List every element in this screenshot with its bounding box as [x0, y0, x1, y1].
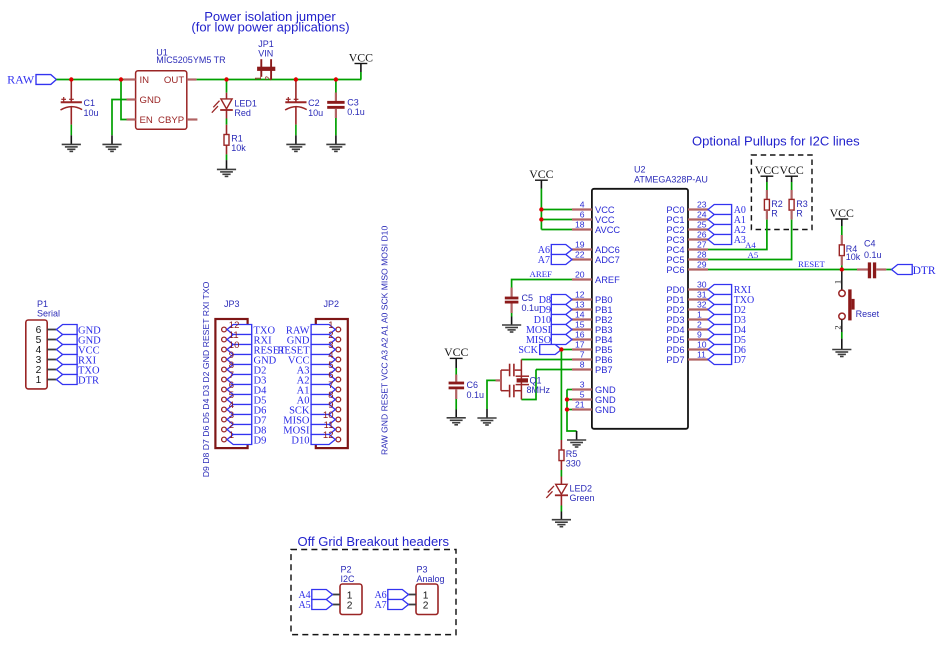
svg-text:RAW GND RESET VCC A3 A2 A1 A0: RAW GND RESET VCC A3 A2 A1 A0 SCK MISO M…	[379, 226, 389, 455]
svg-text:30: 30	[697, 280, 707, 290]
net flag A5 (P2 pin 2)	[312, 600, 333, 610]
svg-text:VCC: VCC	[444, 345, 468, 359]
switch S1 reset button	[841, 272, 843, 291]
resistor R2	[766, 176, 768, 182]
net flag SCK	[540, 345, 562, 355]
capacitor C4	[857, 268, 868, 270]
net flag RAW	[36, 75, 56, 85]
svg-text:1: 1	[36, 375, 42, 386]
svg-text:ATMEGA328P-AU: ATMEGA328P-AU	[634, 174, 708, 184]
U2 pin 29 (PC6) stub	[688, 268, 708, 270]
svg-text:PB3: PB3	[595, 325, 613, 335]
net flag D2 (JP3 pin 8)	[227, 365, 252, 375]
svg-text:PB1: PB1	[595, 305, 613, 315]
svg-text:PC6: PC6	[666, 265, 684, 275]
resistor R1	[226, 125, 228, 135]
JP3 pin 8 circle	[222, 367, 227, 372]
svg-text:PD2: PD2	[666, 305, 684, 315]
U1 pin GND stub	[127, 98, 136, 100]
svg-text:PD7: PD7	[666, 355, 684, 365]
svg-text:PC5: PC5	[666, 255, 684, 265]
net flag D9	[551, 305, 572, 315]
svg-text:AREF: AREF	[530, 269, 553, 279]
U2 pin 15 (PB3) stub	[572, 328, 592, 330]
net flag D8	[551, 295, 572, 305]
junction GND pin5	[565, 397, 569, 401]
svg-text:10u: 10u	[84, 108, 99, 118]
svg-text:CBYP: CBYP	[158, 115, 184, 126]
wire LED2 to ground	[560, 495, 562, 505]
svg-text:22: 22	[575, 250, 585, 260]
svg-text:SCK: SCK	[518, 345, 538, 356]
capacitor C1 ground	[62, 144, 81, 151]
svg-text:1: 1	[229, 430, 234, 441]
svg-text:VIN: VIN	[258, 48, 273, 58]
svg-text:C2: C2	[308, 98, 320, 108]
net flag VCC (JP2 pin 4)	[311, 355, 335, 365]
LED2 ground	[552, 520, 571, 527]
svg-text:PD0: PD0	[666, 285, 684, 295]
svg-text:U2: U2	[634, 164, 646, 174]
U2 pin 8 (PB7) stub	[572, 368, 592, 370]
svg-text:0.1u: 0.1u	[467, 390, 485, 400]
net flag D4 (JP3 pin 6)	[227, 385, 252, 395]
wire VCC drop	[360, 64, 362, 73]
net flag D6	[708, 345, 732, 355]
svg-text:GND: GND	[595, 405, 616, 415]
net flag A6 (P3 pin 1)	[388, 590, 409, 600]
svg-text:21: 21	[575, 400, 585, 410]
U2 ground	[567, 440, 586, 447]
resonator Q1 8MHz	[520, 360, 522, 400]
svg-text:A5: A5	[298, 600, 310, 611]
U2 pin 11 (PD7) stub	[688, 358, 708, 360]
svg-text:1: 1	[832, 280, 842, 284]
wire SCK junction to pin 17	[561, 349, 572, 351]
svg-text:6: 6	[580, 210, 585, 220]
svg-text:19: 19	[575, 240, 585, 250]
svg-text:29: 29	[697, 260, 707, 270]
JP2 pin 6 circle	[336, 377, 341, 382]
svg-text:OUT: OUT	[164, 75, 184, 86]
svg-text:17: 17	[575, 340, 585, 350]
C3 ground	[326, 144, 345, 151]
P1 pin 4 stub	[47, 349, 56, 351]
JP3 pin 5 circle	[222, 397, 227, 402]
svg-text:VCC: VCC	[595, 205, 615, 215]
svg-text:Reset: Reset	[856, 309, 880, 319]
svg-text:JP3: JP3	[224, 299, 240, 309]
svg-text:2: 2	[263, 76, 273, 81]
svg-text:R2: R2	[771, 199, 783, 209]
net flag D5 (JP3 pin 5)	[227, 395, 252, 405]
svg-text:EN: EN	[140, 115, 153, 126]
svg-text:10k: 10k	[231, 143, 246, 153]
net flag A3 (JP2 pin 5)	[311, 365, 335, 375]
svg-text:25: 25	[697, 220, 707, 230]
net flag D7 (JP3 pin 3)	[227, 415, 252, 425]
U2 pin 5 (GND) stub	[572, 398, 592, 400]
svg-text:PC3: PC3	[666, 235, 684, 245]
svg-text:ADC6: ADC6	[595, 245, 620, 255]
svg-text:24: 24	[697, 210, 707, 220]
net flag A0	[708, 205, 732, 215]
net flag A7 (P3 pin 2)	[388, 600, 409, 610]
svg-text:PB5: PB5	[595, 345, 613, 355]
junction VCC pin4	[539, 207, 543, 211]
U2 pin 28 (PC5) stub	[688, 258, 708, 260]
resistor R5	[560, 440, 562, 450]
P1 pin 3 stub	[47, 359, 56, 361]
svg-text:2: 2	[697, 320, 702, 330]
jumper JP1	[260, 59, 262, 77]
junction GND pin21	[565, 407, 569, 411]
net flag DTR	[892, 265, 913, 275]
net flag D5	[708, 335, 732, 345]
U2 pin 31 (PD1) stub	[688, 298, 708, 300]
svg-text:1: 1	[253, 76, 263, 81]
JP3 pin 12 circle	[222, 327, 227, 332]
U2 pin 32 (PD2) stub	[688, 308, 708, 310]
wire PB6 to resonator	[521, 359, 572, 361]
svg-text:P1: P1	[37, 299, 48, 309]
net flag A7 (ADC7)	[551, 255, 572, 265]
dashed box breakout	[291, 550, 456, 635]
svg-text:PD1: PD1	[666, 295, 684, 305]
JP3 pin 6 circle	[222, 387, 227, 392]
JP3 pin 10 circle	[222, 347, 227, 352]
wire RESET net	[708, 269, 857, 271]
JP3 pin 3 circle	[222, 417, 227, 422]
svg-text:D10: D10	[291, 435, 309, 446]
net flag A2 (JP2 pin 6)	[311, 375, 335, 385]
net flag SCK (JP2 pin 9)	[311, 405, 335, 415]
net flag A2	[708, 225, 732, 235]
svg-text:27: 27	[697, 240, 707, 250]
U2 pin 6 (VCC) stub	[572, 218, 592, 220]
op-amp U1 MIC5205 regulator box	[136, 71, 187, 130]
net flag RAW (JP2 pin 1)	[311, 325, 335, 335]
U2 pin 26 (PC3) stub	[688, 238, 708, 240]
svg-text:7: 7	[580, 350, 585, 360]
U2 pin 22 (ADC7) stub	[572, 258, 592, 260]
U2 pin 16 (PB4) stub	[572, 338, 592, 340]
net flag RXI (P1 pin 3)	[56, 355, 77, 365]
dashed box pullups	[751, 155, 812, 230]
svg-text:Q1: Q1	[530, 375, 542, 385]
svg-text:PC4: PC4	[666, 245, 684, 255]
U1 ground	[102, 144, 121, 151]
junction RAW/EN	[119, 77, 123, 81]
U2 pin 13 (PB1) stub	[572, 308, 592, 310]
U2 pin 18 (AVCC) stub	[572, 228, 592, 230]
svg-text:0.1u: 0.1u	[522, 303, 540, 313]
resistor R4	[841, 219, 843, 226]
svg-text:16: 16	[575, 330, 585, 340]
svg-text:Green: Green	[570, 493, 595, 503]
svg-text:PB6: PB6	[595, 355, 613, 365]
JP2 pin 4 circle	[336, 357, 341, 362]
switch ground	[832, 350, 851, 357]
svg-text:DTR: DTR	[913, 265, 936, 277]
svg-text:A4: A4	[745, 240, 756, 250]
U2 pin 10 (PD6) stub	[688, 348, 708, 350]
svg-text:12: 12	[575, 290, 585, 300]
wire R2 to PC4 (A4)	[766, 210, 768, 220]
svg-text:R1: R1	[231, 133, 243, 143]
net flag DTR (P1 pin 1)	[56, 375, 77, 385]
U2 pin 1 (PD3) stub	[688, 318, 708, 320]
net flag D8 (JP3 pin 2)	[227, 425, 252, 435]
svg-text:32: 32	[697, 300, 707, 310]
svg-text:13: 13	[575, 300, 585, 310]
net flag TXO (P1 pin 2)	[56, 365, 77, 375]
wire U1 GND to ground	[112, 100, 127, 136]
svg-text:Off Grid Breakout headers: Off Grid Breakout headers	[298, 534, 450, 549]
svg-text:PD3: PD3	[666, 315, 684, 325]
Q1 gnd pin stub	[496, 379, 502, 381]
net flag TXO	[708, 295, 732, 305]
JP3 pin 1 circle	[222, 437, 227, 442]
svg-text:VCC: VCC	[779, 163, 803, 177]
junction RAW/C1	[69, 77, 73, 81]
svg-text:330: 330	[566, 459, 581, 469]
P3 pin 1 stub	[409, 594, 417, 596]
C6 ground	[447, 418, 466, 425]
svg-text:8MHz: 8MHz	[527, 385, 551, 395]
net flag RESET (JP2 pin 3)	[311, 345, 335, 355]
net flag TXO (JP3 pin 12)	[227, 325, 252, 335]
junction VCC pin6	[539, 217, 543, 221]
net flag MISO	[551, 335, 572, 345]
connector P3 box	[416, 584, 438, 615]
net flag RXI	[708, 285, 732, 295]
switch pin 2 contact circle	[839, 313, 845, 319]
svg-text:VCC: VCC	[349, 50, 373, 64]
U2 pin 7 (PB6) stub	[572, 358, 592, 360]
net flag GND (P1 pin 5)	[56, 335, 77, 345]
net flag MOSI (JP2 pin 11)	[311, 425, 335, 435]
wire R4 to RESET	[841, 256, 843, 266]
svg-text:GND: GND	[140, 95, 161, 106]
U1 pin CBYP stub	[187, 118, 198, 120]
svg-text:20: 20	[575, 270, 585, 280]
P3 pin 2 stub	[409, 604, 417, 606]
svg-text:PB2: PB2	[595, 315, 613, 325]
svg-text:LED2: LED2	[570, 483, 593, 493]
wire PB5 to R5	[560, 350, 562, 441]
svg-text:R5: R5	[566, 449, 578, 459]
resonator ground	[477, 418, 496, 425]
connector P2 box	[340, 584, 362, 615]
capacitor C2	[295, 81, 297, 103]
svg-text:R3: R3	[796, 199, 808, 209]
JP3 pin 2 circle	[222, 427, 227, 432]
svg-text:PC2: PC2	[666, 225, 684, 235]
net flag D7	[708, 355, 732, 365]
svg-text:PC0: PC0	[666, 205, 684, 215]
svg-text:10k: 10k	[846, 252, 861, 262]
IC U2 ATMEGA328P-AU box	[592, 189, 688, 429]
P2 pin 2 stub	[333, 604, 341, 606]
svg-text:C1: C1	[84, 98, 96, 108]
LED LED1	[226, 93, 228, 99]
svg-text:RAW: RAW	[7, 73, 35, 87]
svg-text:IN: IN	[140, 75, 150, 86]
wire AREF	[512, 280, 572, 288]
switch actuator	[848, 289, 851, 320]
svg-text:5: 5	[580, 390, 585, 400]
svg-text:D9 D8 D7 D6 D5 D4 D3 D2 GND RE: D9 D8 D7 D6 D5 D4 D3 D2 GND RESET RXI TX…	[201, 281, 211, 477]
U2 pin 27 (PC4) stub	[688, 248, 708, 250]
U2 pin 20 (AREF) stub	[572, 278, 592, 280]
svg-text:VCC: VCC	[529, 167, 553, 181]
net flag RESET (JP3 pin 10)	[227, 345, 252, 355]
net flag D3	[708, 315, 732, 325]
junction VCC/C3	[334, 77, 338, 81]
svg-text:C6: C6	[467, 380, 479, 390]
svg-text:26: 26	[697, 230, 707, 240]
net flag D2	[708, 305, 732, 315]
wire R5 to LED2	[560, 461, 562, 470]
LED LED2	[560, 477, 562, 485]
R1 ground	[217, 169, 236, 176]
JP2 pin 2 circle	[336, 337, 341, 342]
svg-text:A7: A7	[538, 255, 550, 266]
svg-text:10: 10	[697, 340, 707, 350]
svg-text:C5: C5	[522, 293, 534, 303]
svg-text:18: 18	[575, 220, 585, 230]
U2 pin 30 (PD0) stub	[688, 288, 708, 290]
connector JP3 box	[215, 319, 247, 448]
P1 pin 1 stub	[47, 379, 56, 381]
U1 pin EN stub	[127, 118, 136, 120]
net flag D9 (JP3 pin 1)	[227, 435, 252, 445]
JP2 pin 7 circle	[336, 387, 341, 392]
net flag GND (JP3 pin 9)	[227, 355, 252, 365]
net flag A6 (ADC6)	[551, 245, 572, 255]
U2 pin 12 (PB0) stub	[572, 298, 592, 300]
net flag MISO (JP2 pin 10)	[311, 415, 335, 425]
svg-text:2: 2	[832, 325, 842, 329]
svg-text:8: 8	[580, 360, 585, 370]
svg-text:Serial: Serial	[37, 308, 60, 318]
svg-text:0.1u: 0.1u	[347, 107, 365, 117]
net flag VCC (P1 pin 4)	[56, 345, 77, 355]
U1 pin IN stub	[124, 78, 136, 80]
capacitor C5	[511, 288, 513, 297]
svg-text:RESET: RESET	[798, 259, 826, 269]
svg-text:C3: C3	[347, 97, 359, 107]
svg-text:I2C: I2C	[341, 574, 356, 584]
svg-text:28: 28	[697, 250, 707, 260]
C5 ground	[502, 325, 521, 332]
JP2 pin 11 circle	[336, 427, 341, 432]
svg-text:31: 31	[697, 290, 707, 300]
wire U2 GND pins	[567, 389, 572, 391]
JP2 pin 10 circle	[336, 417, 341, 422]
svg-text:LED1: LED1	[234, 98, 257, 108]
svg-text:P3: P3	[417, 565, 428, 575]
net flag A0 (JP2 pin 8)	[311, 395, 335, 405]
svg-text:VCC: VCC	[755, 163, 779, 177]
svg-text:D9: D9	[254, 435, 267, 446]
svg-text:JP2: JP2	[324, 299, 340, 309]
svg-text:PD5: PD5	[666, 335, 684, 345]
U2 pin 2 (PD4) stub	[688, 328, 708, 330]
svg-text:Red: Red	[234, 108, 251, 118]
svg-text:PB4: PB4	[595, 335, 613, 345]
wire LED1 to R1	[226, 110, 228, 119]
wire PB7 to resonator	[536, 369, 572, 371]
net flag A3	[708, 235, 732, 245]
svg-text:Optional Pullups for I2C lines: Optional Pullups for I2C lines	[692, 134, 860, 149]
U1 pin OUT stub	[187, 78, 197, 80]
JP2 pin 5 circle	[336, 367, 341, 372]
net flag D10	[551, 315, 572, 325]
P2 pin 1 stub	[333, 594, 341, 596]
svg-text:A5: A5	[748, 250, 759, 260]
connector P1 box	[26, 320, 47, 389]
svg-text:D7: D7	[734, 355, 746, 366]
wire R1 to ground	[226, 145, 228, 154]
JP3 pin 11 circle	[222, 337, 227, 342]
svg-text:Analog: Analog	[417, 574, 445, 584]
svg-text:2: 2	[423, 600, 429, 611]
JP3 pin 4 circle	[222, 407, 227, 412]
svg-text:15: 15	[575, 320, 585, 330]
switch pin 1 contact circle	[839, 290, 845, 296]
svg-text:11: 11	[697, 350, 706, 360]
svg-text:10u: 10u	[308, 108, 323, 118]
U2 pin 4 (VCC) stub	[572, 208, 592, 210]
svg-text:1: 1	[697, 310, 702, 320]
capacitor C1	[70, 81, 72, 103]
svg-text:PB7: PB7	[595, 365, 613, 375]
junction VCC/C2	[294, 77, 298, 81]
U2 pin 19 (ADC6) stub	[572, 248, 592, 250]
wire VCC rail from OUT	[197, 79, 362, 81]
P1 pin 2 stub	[47, 369, 56, 371]
U2 pin 21 (GND) stub	[572, 408, 592, 410]
JP2 pin 12 circle	[336, 437, 341, 442]
svg-text:A7: A7	[374, 600, 386, 611]
junction RESET	[840, 267, 844, 271]
JP2 pin 8 circle	[336, 397, 341, 402]
svg-text:2: 2	[347, 600, 353, 611]
svg-text:GND: GND	[595, 385, 616, 395]
svg-text:12: 12	[323, 430, 334, 441]
net flag A1 (JP2 pin 7)	[311, 385, 335, 395]
svg-text:R: R	[771, 209, 778, 219]
JP2 pin 3 circle	[336, 347, 341, 352]
net flag GND (JP2 pin 2)	[311, 335, 335, 345]
net flag MOSI	[551, 325, 572, 335]
JP2 pin 1 circle	[336, 327, 341, 332]
U2 pin 3 (GND) stub	[572, 388, 592, 390]
junction VCC/LED1	[224, 77, 228, 81]
P1 pin 5 stub	[47, 339, 56, 341]
svg-text:MIC5205YM5 TR: MIC5205YM5 TR	[156, 55, 226, 65]
wire VCC to U2 power pins	[540, 180, 542, 188]
svg-text:4: 4	[580, 200, 585, 210]
svg-text:23: 23	[697, 200, 707, 210]
svg-text:(for low power applications): (for low power applications)	[191, 19, 349, 34]
JP2 pin 9 circle	[336, 407, 341, 412]
P1 pin 6 stub	[47, 329, 56, 331]
svg-text:VCC: VCC	[830, 206, 854, 220]
svg-text:R: R	[796, 209, 803, 219]
